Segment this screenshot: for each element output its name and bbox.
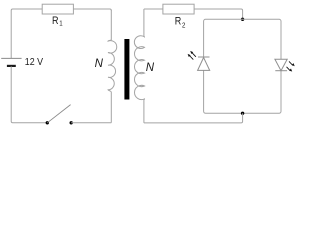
svg-text:2: 2	[182, 22, 186, 30]
transformer core	[124, 39, 129, 100]
wire left rail top and top wire to R1	[11, 9, 42, 58]
secondary winding N	[134, 9, 144, 123]
wire LED loop rectangle (top, bottom, LED1 branch, LED2 branch)	[204, 19, 281, 113]
svg-text:1: 1	[59, 20, 63, 28]
svg-text:N: N	[95, 58, 104, 70]
resistor R2	[163, 4, 194, 14]
junction dot bottom	[241, 112, 244, 115]
svg-text:R: R	[175, 16, 182, 28]
wire R1 to primary winding	[73, 9, 111, 11]
wire left rail bottom to switch	[11, 66, 47, 122]
wire secondary top to R2	[144, 8, 163, 10]
wire R2 to top junction	[194, 9, 243, 19]
svg-text:N: N	[146, 62, 155, 74]
LED D1	[188, 51, 210, 71]
junction dot top	[241, 18, 244, 21]
resistor R1	[42, 4, 73, 14]
svg-text:12 V: 12 V	[25, 57, 44, 69]
label R1	[52, 15, 63, 28]
svg-text:R: R	[52, 15, 59, 27]
LED D2	[275, 59, 295, 71]
battery 12 V	[1, 58, 21, 66]
label R2	[175, 16, 186, 30]
primary winding N	[108, 10, 117, 123]
switch S (open)	[46, 105, 73, 125]
wire switch to primary winding bottom	[71, 122, 111, 124]
wire bottom junction to secondary winding bottom	[144, 113, 243, 123]
